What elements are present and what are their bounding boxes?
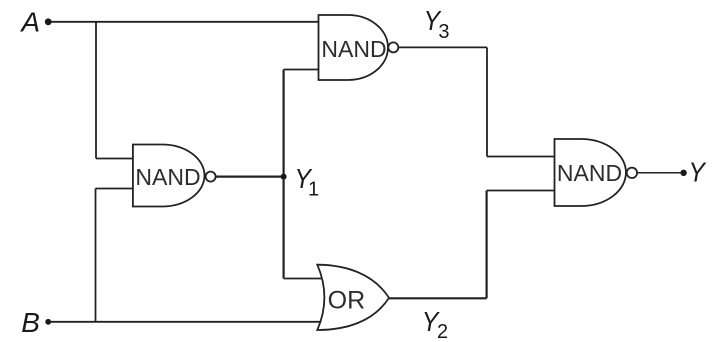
wire B branch to U1 input — [96, 188, 134, 190]
wire Y2 horizontal — [389, 297, 487, 299]
wire Y1 to U3 upper input — [284, 278, 322, 280]
wire B horizontal — [50, 321, 321, 323]
wire A branch vertical — [95, 22, 97, 159]
svg-text:NAND: NAND — [321, 36, 386, 62]
wire A branch to U1 input — [96, 158, 133, 160]
wire Y3 horizontal — [398, 46, 487, 48]
node Y1 junction dot — [281, 174, 287, 180]
input A terminal dot — [45, 18, 52, 25]
nand gate U1 bubble — [206, 172, 216, 182]
svg-text:Y: Y — [689, 156, 708, 188]
nand gate U1 body — [133, 145, 205, 207]
wire B branch vertical — [95, 189, 97, 322]
svg-text:NAND: NAND — [557, 160, 622, 186]
svg-text:2: 2 — [437, 321, 448, 342]
or gate U3 body — [317, 265, 389, 330]
nand gate U2 bubble — [388, 42, 398, 52]
svg-text:OR: OR — [328, 287, 366, 315]
nand gate U4 bubble — [627, 168, 637, 178]
wire A horizontal — [50, 21, 319, 23]
wire Y2 to U4 lower input — [487, 190, 556, 192]
svg-text:A: A — [19, 7, 40, 38]
wire Y3 vertical — [486, 47, 488, 156]
nand gate U4 body — [555, 139, 626, 206]
input B terminal dot — [45, 319, 51, 325]
svg-text:NAND: NAND — [135, 164, 200, 190]
wire Y2 vertical — [486, 191, 488, 299]
nand gate U2 body — [319, 15, 389, 80]
svg-text:3: 3 — [438, 21, 449, 43]
svg-text:B: B — [21, 307, 40, 338]
svg-text:1: 1 — [308, 179, 319, 201]
wire node Y1 vertical — [283, 70, 285, 279]
wire Y3 to U4 upper input — [487, 156, 556, 158]
wire U1 output to node Y1 — [216, 176, 284, 178]
wire Y output — [637, 172, 683, 174]
output Y terminal dot — [680, 170, 686, 176]
wire Y1 to U2 lower input — [284, 69, 320, 71]
